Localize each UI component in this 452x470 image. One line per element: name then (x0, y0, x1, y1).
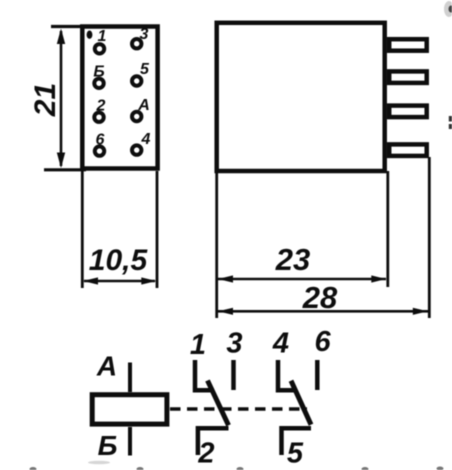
contact pin 6 wire (315, 360, 320, 390)
contact pin 4 wire (278, 360, 297, 390)
scan artifact bottom 4 (362, 467, 369, 470)
svg-text:21: 21 (29, 83, 62, 117)
svg-text:3: 3 (226, 327, 242, 359)
coil terminal Б wire (128, 427, 132, 456)
relay body side view (217, 23, 385, 171)
dimension 23/28 left extension line (215, 171, 218, 318)
dimension 10,5 left arrow (83, 277, 98, 284)
dimension 28 line (218, 310, 428, 313)
terminal pin 4 side view (389, 144, 427, 156)
coil terminal А wire (128, 363, 132, 393)
svg-text:5: 5 (287, 437, 304, 469)
pin 5 hole (132, 76, 141, 85)
svg-text:5: 5 (140, 61, 150, 78)
svg-text:28: 28 (302, 280, 338, 315)
dimension 23 line (218, 278, 386, 281)
pin 3 hole (132, 39, 141, 48)
svg-text:3: 3 (140, 26, 149, 43)
svg-text:23: 23 (275, 242, 310, 277)
pin 1 hole (95, 44, 104, 53)
contact 1-2 movable blade (208, 381, 229, 426)
contact pin 3 wire (231, 360, 236, 390)
pin 6 hole (95, 146, 104, 155)
contact 4-5 movable blade (291, 381, 311, 425)
scan artifact bottom 3 (237, 467, 244, 470)
key dot (87, 31, 93, 39)
pin-face view outline (82, 27, 157, 169)
svg-text:А: А (96, 351, 117, 382)
contact pin 1 wire (195, 360, 214, 390)
pin 2 hole (94, 113, 103, 122)
pin Б hole (94, 79, 103, 88)
terminal pin 3 side view (389, 106, 427, 118)
dimension 10,5 right arrow (141, 277, 156, 284)
svg-text:1: 1 (98, 28, 107, 45)
scan artifact bottom 5 (437, 467, 444, 470)
terminal pin 2 side view (389, 71, 427, 83)
dimension 28 right arrow (413, 308, 428, 315)
dimension 21 top extension line (51, 25, 82, 28)
dimension 23 left arrow (218, 275, 233, 282)
dimension 21 line (60, 31, 63, 166)
terminal pin 1 side view (389, 39, 427, 51)
dimension 10,5 line (84, 280, 155, 283)
svg-text:Б: Б (98, 430, 118, 461)
pin А hole (132, 112, 141, 121)
svg-text:10,5: 10,5 (89, 244, 149, 277)
dimension 23 right arrow (371, 275, 386, 282)
svg-text:2: 2 (197, 437, 214, 469)
contact pin 2 wire (198, 428, 229, 455)
svg-text:6: 6 (96, 132, 105, 149)
svg-text:1: 1 (190, 329, 206, 361)
armature linkage dashed line (170, 407, 307, 410)
dimension 28 right extension line (428, 157, 431, 318)
contact pin 5 wire (282, 428, 312, 455)
coil K1 (92, 395, 167, 424)
pin 4 hole (132, 145, 141, 154)
scan artifact bottom 2 (137, 467, 144, 470)
scan artifact right edge b (449, 124, 452, 129)
dimension 21 arrow up (57, 29, 65, 45)
svg-text:А: А (137, 97, 150, 114)
dimension 23 right extension line (386, 171, 389, 287)
svg-text:4: 4 (141, 131, 151, 148)
scan artifact top right (444, 1, 452, 17)
scan artifact bottom smudge (88, 461, 110, 465)
dimension 21 bottom extension line (44, 168, 86, 171)
svg-text:Б: Б (93, 64, 104, 81)
scan artifact right edge a (449, 116, 452, 122)
svg-text:6: 6 (315, 326, 332, 358)
dimension 21 arrow down (57, 153, 65, 169)
svg-text:4: 4 (272, 327, 289, 359)
svg-text:2: 2 (96, 98, 106, 115)
dimension 10,5 left extension line (81, 171, 84, 288)
dimension 28 left arrow (218, 308, 233, 315)
dimension 10,5 right extension line (156, 171, 159, 288)
scan artifact bottom 1 (30, 467, 37, 470)
